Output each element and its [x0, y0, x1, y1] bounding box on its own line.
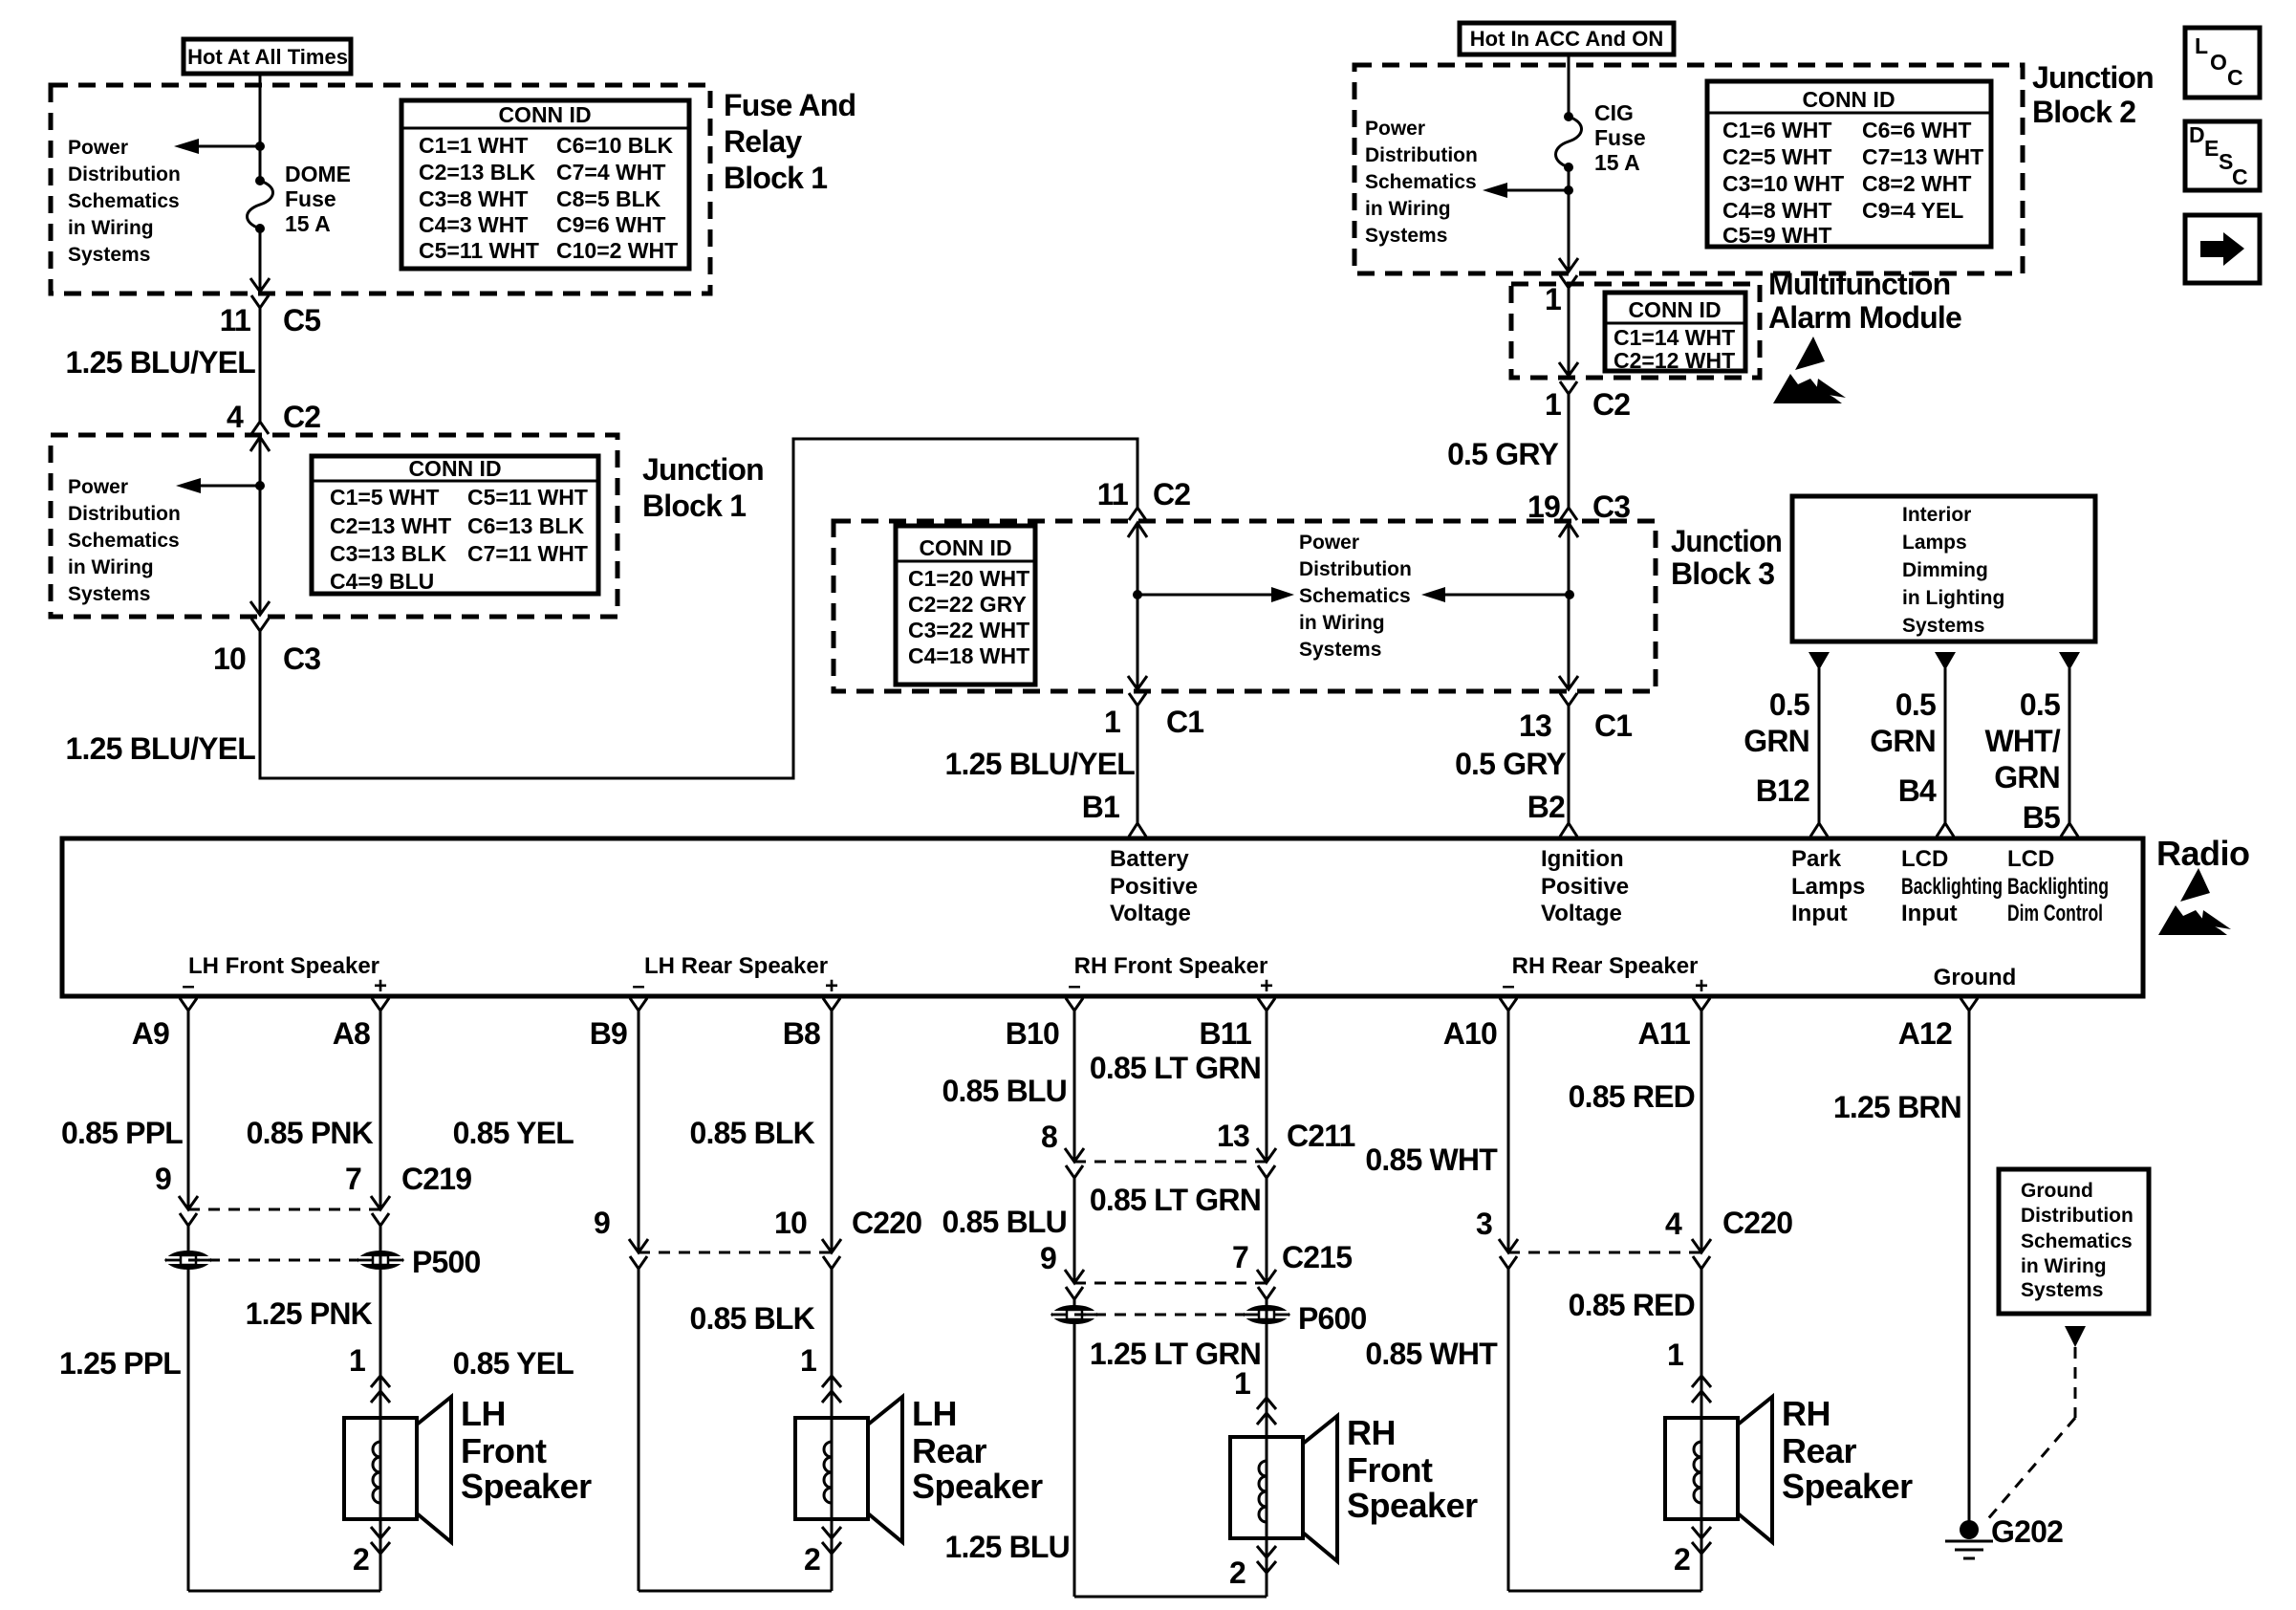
svg-text:C7=11 WHT: C7=11 WHT: [467, 541, 588, 566]
wire dashed connector line C220 right: [1508, 1251, 1701, 1254]
svg-text:C2=13 WHT: C2=13 WHT: [330, 513, 451, 538]
node grommet P600 on B10: [1051, 1305, 1098, 1324]
svg-text:C4=8 WHT: C4=8 WHT: [1722, 198, 1831, 223]
svg-text:Junction: Junction: [1671, 524, 1782, 558]
svg-text:C1=6 WHT: C1=6 WHT: [1722, 118, 1831, 142]
svg-text:Input: Input: [1901, 901, 1958, 926]
svg-text:0.85 BLK: 0.85 BLK: [689, 1116, 814, 1150]
fuse CIG 15A: [1556, 112, 1582, 172]
svg-text:0.85 PPL: 0.85 PPL: [61, 1116, 183, 1150]
wire B11 upper segment: [1266, 1011, 1268, 1160]
svg-text:15 A: 15 A: [1594, 150, 1640, 175]
svg-text:2: 2: [353, 1542, 369, 1577]
node DOME Fuse 15 A label: [285, 162, 351, 236]
svg-text:C3: C3: [1592, 490, 1630, 524]
svg-text:B12: B12: [1756, 773, 1809, 808]
wire dashed connector line C215: [1074, 1282, 1267, 1285]
wire bottom rail RH front: [1074, 1596, 1267, 1599]
wire B2 branch through JB3: [1559, 523, 1578, 689]
svg-text:CONN ID: CONN ID: [498, 102, 591, 127]
node connector C220 crossing on B8: [822, 1239, 841, 1269]
svg-text:A9: A9: [132, 1016, 169, 1051]
Fuse And Relay Block 1 dashed boundary: [51, 85, 710, 294]
speaker RH Rear symbol: [1665, 1397, 1772, 1542]
svg-text:C: C: [2232, 164, 2248, 189]
node Power Distribution Schematics text (JB2): [1365, 118, 1478, 247]
svg-text:G202: G202: [1991, 1514, 2063, 1549]
node Multifunction Alarm Module name label: [1768, 267, 1961, 335]
svg-text:C215: C215: [1282, 1240, 1352, 1274]
svg-text:Backlighting: Backlighting: [2007, 874, 2109, 900]
node RH Front Speaker name label: [1347, 1413, 1478, 1525]
svg-text:Ignition: Ignition: [1541, 846, 1624, 872]
svg-text:13: 13: [1217, 1119, 1249, 1153]
speaker LH Front symbol: [344, 1397, 451, 1542]
node connector C211 crossing on B11: [1257, 1148, 1276, 1178]
node connector fork 1 C2 below alarm module: [1545, 381, 1630, 422]
svg-text:LCD: LCD: [2007, 846, 2054, 872]
svg-text:+: +: [825, 973, 838, 999]
node junction dot JB3 right: [1565, 590, 1574, 599]
node connector C219 crossing on A8: [371, 1196, 390, 1226]
svg-text:Distribution: Distribution: [2021, 1205, 2134, 1227]
svg-text:C4=18 WHT: C4=18 WHT: [908, 643, 1029, 668]
node connector C220 crossing on A11: [1692, 1239, 1711, 1269]
wire B8 lower segment with double chevron: [822, 1269, 841, 1591]
svg-text:O: O: [2210, 50, 2227, 75]
node connector fork pin 1 (alarm module top): [1545, 275, 1577, 316]
wire dashed connector line P600: [1074, 1314, 1267, 1316]
svg-text:Rear: Rear: [912, 1431, 987, 1470]
svg-text:+: +: [374, 973, 387, 999]
svg-text:B11: B11: [1199, 1016, 1251, 1051]
svg-text:C5: C5: [283, 303, 320, 337]
svg-text:in Wiring: in Wiring: [2021, 1255, 2107, 1277]
node Ground Distribution Schematics box: [1999, 1169, 2149, 1314]
svg-text:Ground: Ground: [2021, 1180, 2093, 1202]
svg-text:C4=3 WHT: C4=3 WHT: [419, 212, 528, 237]
wire arrow to Power Distribution Schematics (block 1): [174, 139, 260, 154]
node Power Distribution Schematics text (block 1): [68, 137, 181, 266]
node CONN ID table (alarm module): [1605, 293, 1745, 373]
svg-text:Radio: Radio: [2156, 834, 2250, 873]
svg-text:7: 7: [345, 1162, 361, 1196]
svg-text:1: 1: [349, 1343, 365, 1378]
svg-text:CONN ID: CONN ID: [1802, 87, 1895, 112]
wire B2 into radio with fork: [1560, 706, 1577, 837]
svg-text:Front: Front: [1347, 1450, 1433, 1490]
svg-text:RH Rear Speaker: RH Rear Speaker: [1512, 953, 1699, 979]
svg-text:B1: B1: [1082, 790, 1119, 824]
svg-text:Speaker: Speaker: [461, 1467, 592, 1506]
node connector C211 crossing on B10: [1065, 1148, 1084, 1178]
svg-text:in Wiring: in Wiring: [1299, 612, 1385, 634]
svg-text:Multifunction: Multifunction: [1768, 267, 1950, 301]
svg-text:Speaker: Speaker: [1782, 1467, 1913, 1506]
svg-text:C6=13 BLK: C6=13 BLK: [467, 513, 584, 538]
svg-text:Hot In ACC And ON: Hot In ACC And ON: [1470, 27, 1663, 51]
svg-text:LH: LH: [461, 1394, 506, 1433]
node LH Front Speaker header with polarity: [182, 953, 387, 999]
node connector fork 1 C1 below JB3: [1104, 693, 1203, 739]
svg-text:Schematics: Schematics: [68, 530, 180, 552]
wire B9 lower segment: [638, 1269, 640, 1591]
svg-text:0.85 BLK: 0.85 BLK: [689, 1301, 814, 1336]
wire A10 upper segment: [1507, 1011, 1510, 1251]
svg-text:–: –: [1502, 973, 1514, 999]
svg-text:0.85 YEL: 0.85 YEL: [453, 1346, 574, 1381]
node pin 2 below LH rear speaker with chevrons: [804, 1527, 841, 1577]
node grommet P500 on A8: [357, 1251, 404, 1270]
svg-text:Junction: Junction: [2032, 60, 2154, 95]
wire A11 upper segment: [1700, 1011, 1703, 1251]
wire A11 lower segment with double chevron: [1692, 1269, 1711, 1591]
node Ignition Positive Voltage label: [1541, 846, 1629, 926]
svg-text:Rear: Rear: [1782, 1431, 1857, 1470]
svg-text:C3=22 WHT: C3=22 WHT: [908, 618, 1029, 642]
svg-text:10: 10: [774, 1206, 807, 1240]
svg-text:Distribution: Distribution: [68, 503, 181, 525]
svg-text:0.5: 0.5: [2020, 687, 2060, 722]
node Battery Positive Voltage label: [1110, 846, 1198, 926]
svg-text:–: –: [182, 973, 194, 999]
node CONN ID table (Junction Block 1): [312, 456, 598, 594]
svg-text:Speaker: Speaker: [912, 1467, 1043, 1506]
svg-text:1.25 BLU/YEL: 1.25 BLU/YEL: [66, 731, 256, 766]
node connector fork 4 C2: [227, 400, 320, 434]
node ESD symbol (radio): [2158, 868, 2231, 935]
wire B9 upper segment: [638, 1011, 640, 1251]
svg-text:C4=9 BLU: C4=9 BLU: [330, 569, 434, 594]
svg-text:RH: RH: [1347, 1413, 1396, 1452]
svg-text:1.25 BLU/YEL: 1.25 BLU/YEL: [945, 747, 1136, 781]
svg-text:B10: B10: [1006, 1016, 1059, 1051]
svg-text:0.85 RED: 0.85 RED: [1569, 1079, 1695, 1114]
svg-text:P500: P500: [412, 1245, 481, 1279]
wire B4 LCD backlighting with arrow into box: [1935, 652, 1956, 837]
svg-text:Battery: Battery: [1110, 846, 1189, 872]
wire B11 lower segment with double chevron: [1257, 1299, 1276, 1597]
node connector C215 crossing on B10: [1065, 1270, 1084, 1299]
wire from Hot In ACC into JB2: [1568, 54, 1570, 117]
node connector fork 13 C1 below JB3: [1519, 693, 1632, 743]
node Junction Block 3 name label: [1671, 524, 1782, 591]
node radio pin A10 fork: [1443, 998, 1517, 1051]
svg-text:GRN: GRN: [1744, 724, 1809, 758]
svg-text:Input: Input: [1791, 901, 1848, 926]
wire B8 upper segment: [831, 1011, 834, 1251]
wire A9 upper segment: [187, 1011, 190, 1207]
node connector fork 10 C3: [213, 619, 320, 676]
svg-text:C3=13 BLK: C3=13 BLK: [330, 541, 446, 566]
svg-text:3: 3: [1476, 1207, 1492, 1241]
node ESD symbol (alarm module): [1773, 337, 1846, 403]
node pin 2 below LH front speaker with chevrons: [353, 1527, 390, 1577]
svg-text:Relay: Relay: [724, 124, 802, 159]
svg-text:C1: C1: [1594, 708, 1632, 743]
svg-text:C220: C220: [852, 1206, 921, 1240]
node connector C220 crossing on B9: [629, 1239, 648, 1269]
node Junction Block 2 name label: [2032, 60, 2154, 129]
node RH Front Speaker header with polarity: [1068, 953, 1273, 999]
node Junction Block 1 name label: [642, 452, 764, 523]
svg-text:Block 1: Block 1: [642, 489, 746, 523]
svg-text:–: –: [632, 973, 644, 999]
svg-text:Speaker: Speaker: [1347, 1486, 1478, 1525]
svg-text:Positive: Positive: [1541, 874, 1629, 900]
svg-text:DOME: DOME: [285, 162, 351, 186]
svg-text:Park: Park: [1791, 846, 1842, 872]
svg-text:C2: C2: [283, 400, 320, 434]
Junction Block 1 dashed boundary: [51, 435, 617, 617]
svg-text:Distribution: Distribution: [68, 163, 181, 185]
node Interior Lamps Dimming box: [1792, 496, 2095, 642]
wire B12 park lamps with arrow into box: [1809, 652, 1830, 837]
wire A12 ground wire: [1968, 1011, 1971, 1532]
node CONN ID table (Fuse And Relay Block 1): [401, 100, 689, 269]
svg-text:+: +: [1260, 973, 1273, 999]
wire B5 LCD dim control with arrow into box: [2059, 652, 2080, 837]
svg-text:B8: B8: [783, 1016, 820, 1051]
wire dashed connector line C211: [1074, 1161, 1267, 1164]
node radio pin A8 fork: [333, 998, 389, 1051]
node connector C219 crossing on A9: [179, 1196, 198, 1226]
node radio pin B9 fork: [590, 998, 647, 1051]
node junction dot JB2: [1564, 185, 1573, 195]
svg-text:B9: B9: [590, 1016, 627, 1051]
node radio pin B8 fork: [783, 998, 840, 1051]
svg-text:19: 19: [1527, 490, 1560, 524]
node connector C220 crossing on A10: [1499, 1239, 1518, 1269]
svg-text:9: 9: [155, 1162, 171, 1196]
wire arrow left to Power Distribution text (JB3): [1421, 587, 1570, 602]
svg-text:C2=13 BLK: C2=13 BLK: [419, 160, 535, 185]
node radio pin A12 fork: [1898, 998, 1978, 1051]
svg-text:C1=5 WHT: C1=5 WHT: [330, 485, 439, 510]
svg-text:Systems: Systems: [1299, 639, 1381, 661]
wire arrow to Power Distribution Schematics (JB1): [176, 478, 260, 493]
svg-text:Fuse And: Fuse And: [724, 88, 856, 122]
svg-text:Power: Power: [68, 137, 128, 159]
node CIG Fuse 15 A label: [1594, 100, 1646, 175]
Multifunction Alarm Module dashed boundary: [1511, 284, 1760, 378]
node radio pin A11 fork: [1637, 998, 1710, 1051]
svg-text:0.85 BLU: 0.85 BLU: [942, 1205, 1067, 1239]
svg-text:A12: A12: [1898, 1016, 1952, 1051]
svg-text:–: –: [1068, 973, 1080, 999]
svg-text:0.85 BLU: 0.85 BLU: [942, 1074, 1067, 1108]
svg-text:C7=13 WHT: C7=13 WHT: [1862, 144, 1983, 169]
svg-text:1.25 PNK: 1.25 PNK: [246, 1296, 373, 1331]
svg-text:Schematics: Schematics: [1299, 585, 1411, 607]
wire from Hot At All Times into fuse block: [259, 74, 262, 181]
svg-text:2: 2: [804, 1542, 820, 1577]
svg-text:B4: B4: [1898, 773, 1937, 808]
wire bottom rail RH rear: [1508, 1590, 1701, 1593]
node RH Rear Speaker header with polarity: [1502, 953, 1708, 999]
svg-text:C8=2 WHT: C8=2 WHT: [1862, 171, 1971, 196]
svg-text:CONN ID: CONN ID: [408, 456, 501, 481]
node LH Rear Speaker name label: [912, 1394, 1043, 1506]
svg-text:C5=11 WHT: C5=11 WHT: [467, 485, 588, 510]
svg-text:2: 2: [1229, 1556, 1245, 1590]
wire B1 branch through JB3: [1128, 523, 1147, 689]
svg-text:0.85 WHT: 0.85 WHT: [1365, 1337, 1498, 1371]
svg-text:C5=11 WHT: C5=11 WHT: [419, 238, 539, 263]
node connector fork 11 C2 into JB3: [1097, 477, 1191, 520]
svg-text:C2=5 WHT: C2=5 WHT: [1722, 144, 1831, 169]
svg-text:1: 1: [1104, 705, 1120, 739]
Junction Block 2 dashed boundary: [1354, 65, 2023, 273]
wire bottom rail LH front: [188, 1590, 380, 1593]
node Power Distribution Schematics text (JB1): [68, 476, 181, 605]
svg-text:C219: C219: [401, 1162, 471, 1196]
wire dashed connector line P500: [188, 1259, 380, 1262]
svg-text:LH Rear Speaker: LH Rear Speaker: [644, 953, 828, 979]
svg-text:Ground: Ground: [1934, 965, 2017, 990]
svg-text:A11: A11: [1637, 1016, 1690, 1051]
svg-text:in Wiring: in Wiring: [68, 217, 154, 239]
svg-text:L: L: [2195, 33, 2208, 58]
wire through alarm module: [1559, 288, 1578, 376]
wire dashed reference to G202 with arrow: [1985, 1326, 2086, 1522]
wire dashed connector line C220 left: [639, 1251, 832, 1254]
node radio pin B11 fork: [1199, 998, 1275, 1051]
svg-text:Distribution: Distribution: [1299, 558, 1412, 580]
node connector fork 19 C3 into JB3: [1527, 394, 1630, 524]
node radio pin A9 fork: [132, 998, 197, 1051]
svg-text:8: 8: [1041, 1120, 1057, 1154]
Junction Block 3 dashed boundary: [834, 521, 1656, 691]
wire label 0.5 WHT/GRN (B5): [1984, 687, 2060, 794]
svg-text:Systems: Systems: [68, 583, 150, 605]
node grommet P500 on A9: [164, 1251, 212, 1270]
svg-text:Schematics: Schematics: [68, 190, 180, 212]
svg-text:0.5 GRY: 0.5 GRY: [1455, 747, 1566, 781]
svg-text:Alarm Module: Alarm Module: [1768, 300, 1961, 335]
svg-text:C2=12 WHT: C2=12 WHT: [1614, 348, 1735, 373]
svg-text:C1=14 WHT: C1=14 WHT: [1614, 325, 1735, 350]
node LH Front Speaker name label: [461, 1394, 592, 1506]
svg-text:7: 7: [1232, 1240, 1248, 1274]
speaker LH Rear symbol: [795, 1397, 902, 1542]
svg-text:Positive: Positive: [1110, 874, 1198, 900]
svg-text:0.5: 0.5: [1895, 687, 1936, 722]
svg-text:CONN ID: CONN ID: [1628, 297, 1721, 322]
svg-text:Schematics: Schematics: [2021, 1230, 2133, 1252]
svg-text:C9=4 YEL: C9=4 YEL: [1862, 198, 1963, 223]
node connector C215 crossing on B11: [1257, 1270, 1276, 1299]
svg-text:Fuse: Fuse: [1594, 125, 1646, 150]
node junction dot JB1: [255, 481, 265, 490]
svg-text:Systems: Systems: [1902, 615, 1984, 637]
svg-text:1: 1: [800, 1343, 816, 1378]
fuse DOME 15A: [248, 176, 273, 233]
svg-text:Fuse: Fuse: [285, 186, 336, 211]
node connector fork 11 C5: [220, 295, 321, 422]
svg-text:Schematics: Schematics: [1365, 171, 1477, 193]
svg-text:2: 2: [1674, 1542, 1690, 1577]
node pin 2 below RH rear speaker with chevrons: [1674, 1527, 1711, 1577]
node arrow legend box: [2185, 215, 2260, 283]
svg-text:CONN ID: CONN ID: [919, 535, 1011, 560]
svg-text:Voltage: Voltage: [1541, 901, 1622, 926]
svg-text:Front: Front: [461, 1431, 547, 1470]
svg-text:Systems: Systems: [68, 244, 150, 266]
svg-text:Dim Control: Dim Control: [2007, 901, 2103, 926]
wire fuse down through JB2: [1559, 167, 1578, 272]
node Power Distribution Schematics text (JB3): [1299, 532, 1412, 661]
svg-text:P600: P600: [1298, 1301, 1367, 1336]
svg-text:1.25 PPL: 1.25 PPL: [59, 1346, 181, 1381]
svg-text:Junction: Junction: [642, 452, 764, 487]
svg-text:+: +: [1695, 973, 1708, 999]
svg-text:A8: A8: [333, 1016, 370, 1051]
svg-text:0.85 LT GRN: 0.85 LT GRN: [1090, 1051, 1261, 1085]
svg-text:E: E: [2204, 136, 2219, 161]
svg-text:1.25 BLU/YEL: 1.25 BLU/YEL: [66, 345, 256, 380]
svg-text:C9=6 WHT: C9=6 WHT: [556, 212, 665, 237]
svg-text:C7=4 WHT: C7=4 WHT: [556, 160, 665, 185]
wire dashed connector line C219: [188, 1208, 380, 1211]
svg-text:C3=10 WHT: C3=10 WHT: [1722, 171, 1844, 196]
node LCD Backlighting Dim Control label: [2007, 846, 2109, 926]
svg-text:RH Front Speaker: RH Front Speaker: [1074, 953, 1268, 979]
svg-text:1: 1: [1545, 387, 1561, 422]
svg-text:Lamps: Lamps: [1791, 874, 1865, 900]
svg-text:GRN: GRN: [1870, 724, 1936, 758]
node DESC legend box: [2185, 121, 2260, 190]
ground G202 symbol: [1945, 1520, 1993, 1558]
svg-text:Power: Power: [1299, 532, 1359, 554]
svg-text:A10: A10: [1443, 1016, 1497, 1051]
svg-text:LH Front Speaker: LH Front Speaker: [188, 953, 379, 979]
node pin 2 below RH front speaker with chevrons: [1229, 1546, 1276, 1590]
svg-text:13: 13: [1519, 708, 1551, 743]
svg-text:in Wiring: in Wiring: [68, 556, 154, 578]
speaker RH Front symbol: [1230, 1416, 1337, 1561]
svg-text:Systems: Systems: [1365, 225, 1447, 247]
svg-text:Block 1: Block 1: [724, 161, 827, 195]
svg-text:C220: C220: [1722, 1206, 1792, 1240]
svg-text:1: 1: [1234, 1366, 1250, 1401]
node LH Rear Speaker header with polarity: [632, 953, 838, 999]
svg-text:0.85 YEL: 0.85 YEL: [453, 1116, 574, 1150]
node Park Lamps Input label: [1791, 846, 1865, 926]
svg-text:B2: B2: [1527, 790, 1565, 824]
wire B1 into radio with fork: [1129, 706, 1146, 837]
svg-text:C3=8 WHT: C3=8 WHT: [419, 186, 528, 211]
svg-text:Interior: Interior: [1902, 504, 1971, 526]
wire arrow right to Power Distribution text (JB3): [1137, 587, 1294, 602]
svg-text:Power: Power: [1365, 118, 1425, 140]
svg-text:0.5 GRY: 0.5 GRY: [1447, 437, 1558, 471]
wire B10 mid segment: [1073, 1178, 1076, 1281]
node grommet P600 on B11: [1243, 1305, 1290, 1324]
node Radio box: [62, 838, 2143, 996]
svg-text:0.85 RED: 0.85 RED: [1569, 1288, 1695, 1322]
svg-text:D: D: [2189, 122, 2205, 147]
node junction dot JB3 left: [1133, 590, 1142, 599]
svg-text:Dimming: Dimming: [1902, 559, 1988, 581]
svg-text:9: 9: [594, 1206, 610, 1240]
svg-text:Power: Power: [68, 476, 128, 498]
svg-text:in Wiring: in Wiring: [1365, 198, 1451, 220]
wire down arrow at JB1 bottom: [250, 601, 270, 615]
svg-text:GRN: GRN: [1994, 760, 2060, 794]
svg-text:LH: LH: [912, 1394, 957, 1433]
svg-text:0.5: 0.5: [1769, 687, 1809, 722]
